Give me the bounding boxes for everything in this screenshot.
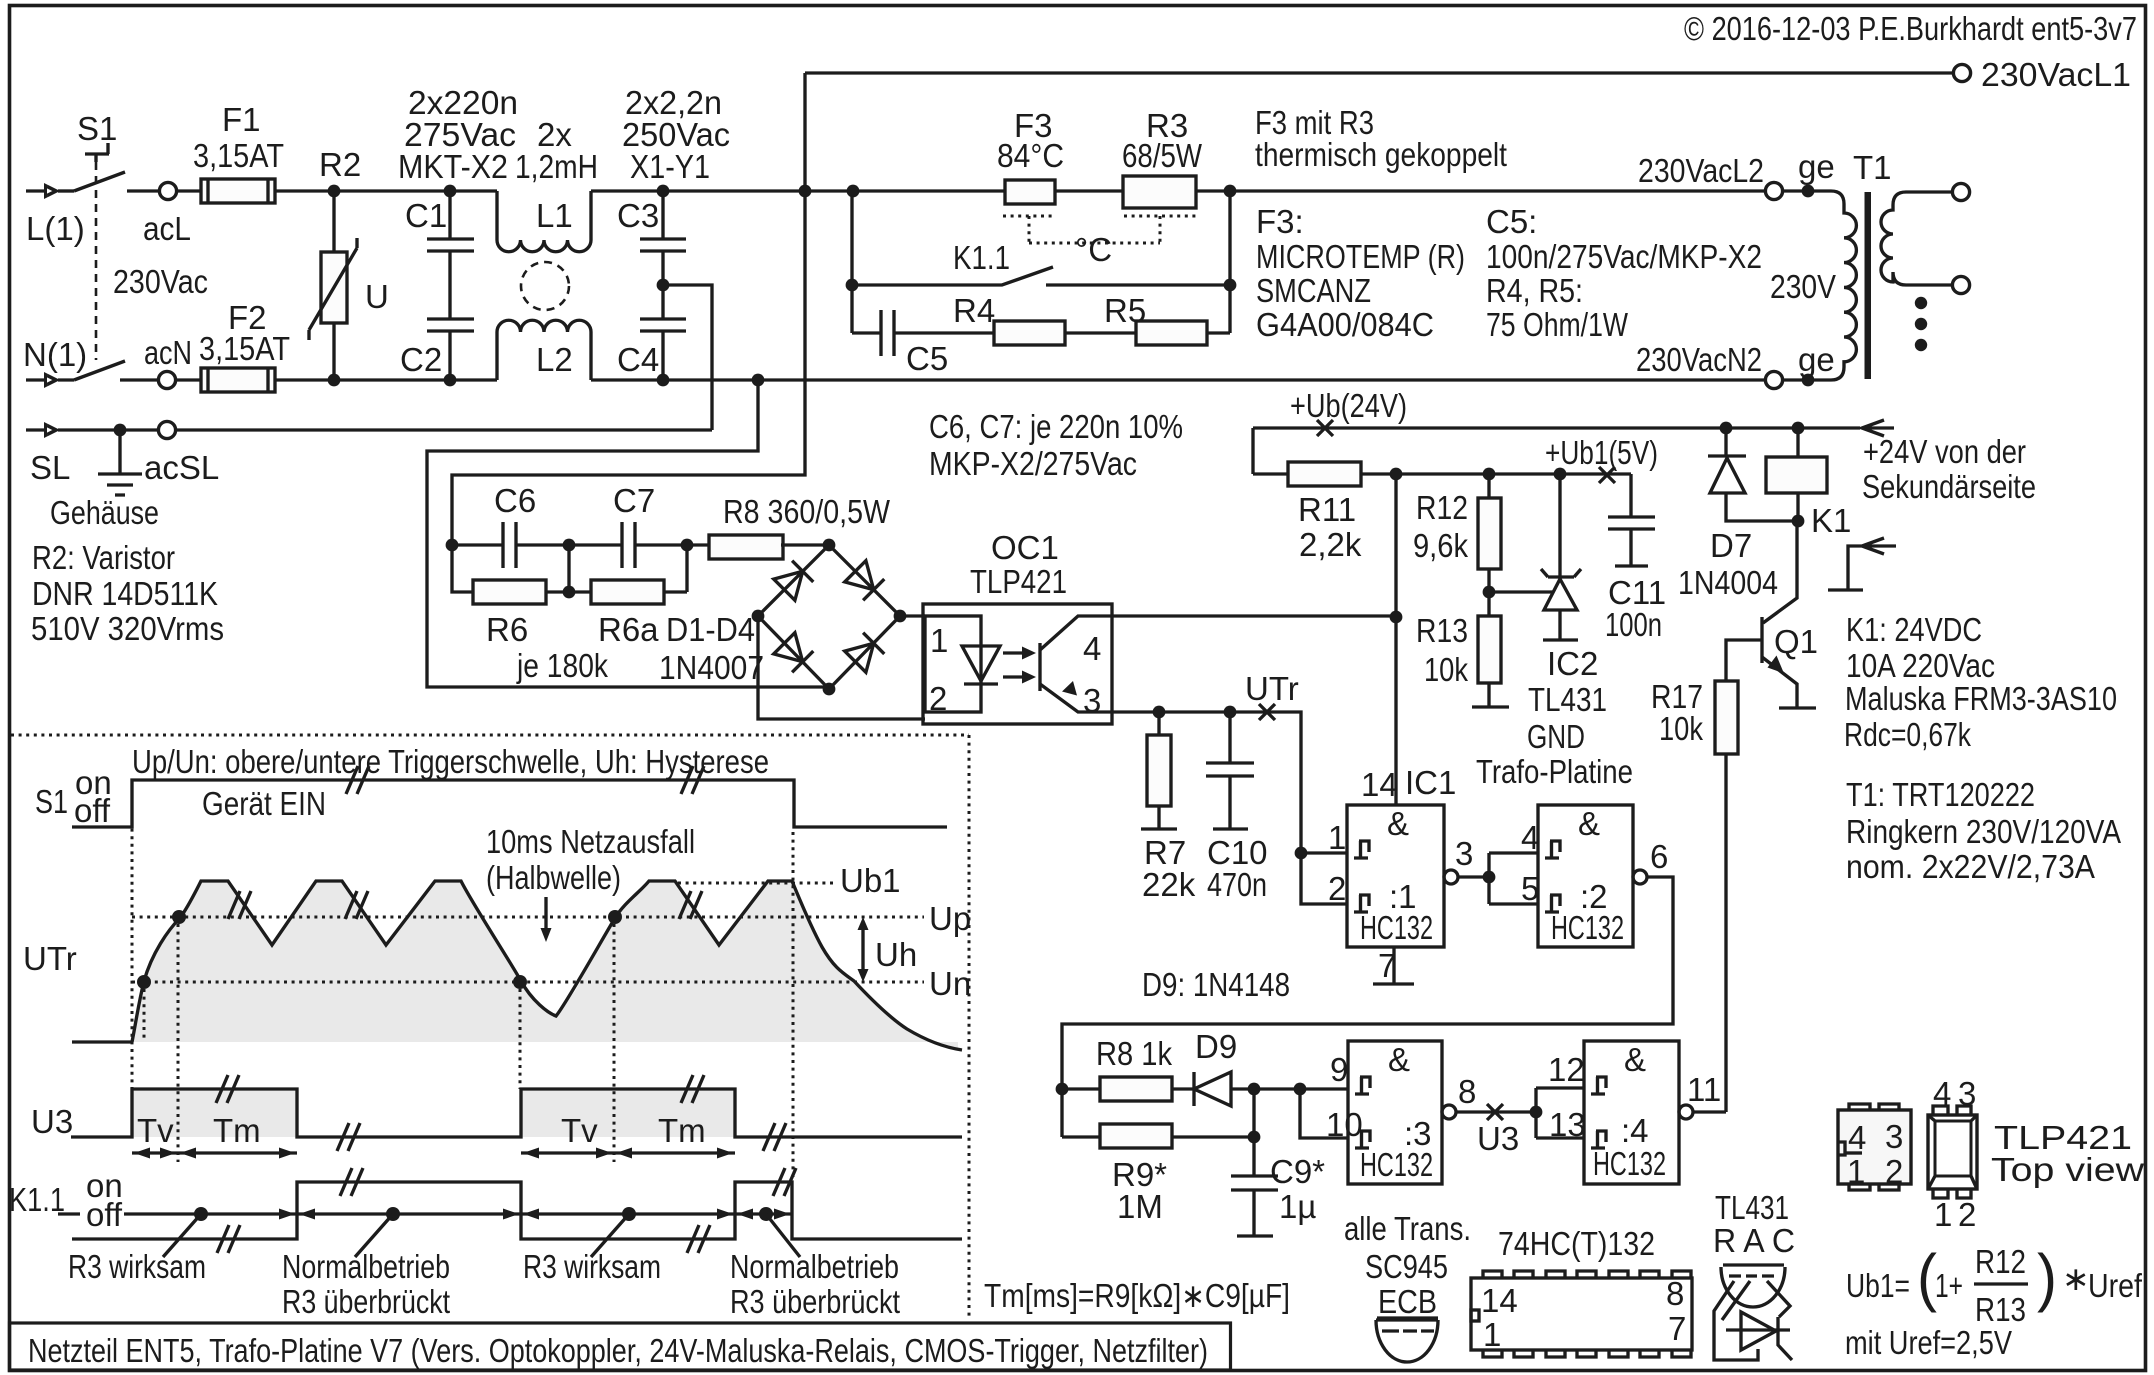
svg-text:&: & (1624, 1041, 1646, 1078)
node C7 right (681, 539, 694, 552)
svg-text:84°C: 84°C (997, 137, 1064, 174)
node R6/R6a mid (563, 586, 576, 599)
svg-text:T1: T1 (1853, 149, 1892, 186)
svg-text:R4, R5:: R4, R5: (1486, 272, 1583, 309)
svg-text:R2: Varistor: R2: Varistor (32, 539, 175, 576)
resistor R12 (1487, 474, 1490, 498)
svg-text:Uref: Uref (2088, 1267, 2143, 1304)
break S1 high 2 (681, 766, 704, 794)
svg-text:off: off (74, 792, 111, 829)
node K1 top (1792, 422, 1805, 435)
node L(1) input arrow (26, 189, 44, 192)
capacitor C11 (1608, 474, 1655, 566)
arrow to dip (544, 897, 547, 928)
wire SL (58, 428, 712, 431)
resistor R9* (1062, 1135, 1100, 1138)
svg-text:TLP421: TLP421 (970, 563, 1067, 600)
svg-text:acN: acN (144, 334, 192, 371)
node L-feed (799, 185, 812, 198)
svg-text:UTr: UTr (23, 940, 77, 977)
svg-text:K1.1: K1.1 (9, 1181, 65, 1218)
Uh arrow (861, 928, 864, 972)
wire pin6 feedback (1062, 877, 1673, 1137)
K1.1 breaks (217, 1225, 240, 1253)
IC DIP14 body (1471, 1278, 1692, 1350)
svg-text:thermisch gekoppelt: thermisch gekoppelt (1255, 136, 1507, 173)
pin 8 output (1442, 1105, 1456, 1119)
UTr breaks (228, 891, 251, 919)
transformer T1 primary (1831, 191, 1856, 380)
boundary dotted (11, 735, 969, 1318)
node F3 right (1224, 185, 1237, 198)
transistor SC945 package (1376, 1318, 1438, 1321)
svg-text:SMCANZ: SMCANZ (1256, 272, 1371, 309)
capacitor C1 (444, 185, 457, 198)
svg-text:R12: R12 (1416, 489, 1468, 526)
wire L2 to T1 (1783, 189, 1831, 192)
svg-text:Normalbetrieb: Normalbetrieb (282, 1248, 450, 1285)
U3 breaks (216, 1075, 239, 1103)
coupling circle (521, 262, 569, 310)
wire L bus through F3 block (805, 189, 1765, 192)
svg-text:TL431: TL431 (1528, 681, 1607, 718)
svg-text:K1: 24VDC: K1: 24VDC (1846, 611, 1982, 648)
Tv arrow 1 (132, 1151, 178, 1154)
node acN (158, 371, 175, 388)
svg-text:+Ub(24V): +Ub(24V) (1290, 387, 1407, 424)
svg-text:Q1: Q1 (1774, 623, 1818, 660)
svg-text:C2: C2 (400, 341, 442, 378)
DIP14 notch (1471, 1310, 1479, 1321)
svg-text:SC945: SC945 (1365, 1248, 1448, 1285)
switch S1 pole L (74, 143, 125, 191)
svg-text:mit Uref=2,5V: mit Uref=2,5V (1845, 1324, 2012, 1361)
capacitor C6 (452, 522, 569, 568)
break S1 high 1 (346, 766, 369, 794)
svg-text:U3: U3 (1477, 1120, 1519, 1157)
svg-text::4: :4 (1621, 1112, 1649, 1149)
svg-text:MICROTEMP (R): MICROTEMP (R) (1256, 238, 1465, 275)
wire to gate 2 inputs (1489, 853, 1538, 904)
svg-text:D1-D4: D1-D4 (666, 611, 755, 648)
svg-text:1µ: 1µ (1279, 1188, 1316, 1225)
svg-text:1: 1 (1483, 1316, 1501, 1353)
svg-text:C5:: C5: (1486, 203, 1537, 240)
svg-text:Normalbetrieb: Normalbetrieb (730, 1248, 899, 1285)
ground Gehaeuse (98, 430, 142, 495)
svg-text:1: 1 (1847, 1153, 1865, 1190)
dotted level Ub1 (678, 882, 836, 885)
svg-text:10A 220Vac: 10A 220Vac (1846, 647, 1995, 684)
svg-text:X1-Y1: X1-Y1 (630, 148, 710, 185)
svg-text:10: 10 (1326, 1106, 1363, 1143)
svg-text:Trafo-Platine: Trafo-Platine (1476, 753, 1633, 790)
svg-text:Rdc=0,67k: Rdc=0,67k (1844, 716, 1971, 753)
secondary terminal top (1952, 183, 1969, 200)
svg-text:10k: 10k (1424, 651, 1468, 688)
resistor R17 (1715, 681, 1738, 754)
svg-text:Tm: Tm (658, 1112, 706, 1149)
svg-text:7: 7 (1668, 1310, 1686, 1347)
svg-text:9,6k: 9,6k (1413, 527, 1468, 564)
wire bridge+ to OC1 pin1 (900, 614, 925, 617)
svg-text:R13: R13 (1975, 1291, 2026, 1328)
svg-text:Ub1=: Ub1= (1846, 1267, 1910, 1304)
resistor R11 (1253, 472, 1288, 475)
resistor R6 (452, 545, 473, 592)
svg-text:ge: ge (1798, 148, 1835, 185)
DIP14 pins top (1483, 1271, 1691, 1278)
wire to 230VacL1 (805, 73, 1953, 191)
svg-text:4: 4 (1848, 1119, 1866, 1156)
svg-text:12: 12 (1548, 1051, 1585, 1088)
svg-text:Netzteil ENT5, Trafo-Platine V: Netzteil ENT5, Trafo-Platine V7 (Vers. O… (28, 1332, 1208, 1369)
diode D3 bottom-left arm (774, 633, 814, 673)
svg-text:U3: U3 (31, 1103, 73, 1140)
node 230VacN2 terminal (1765, 371, 1782, 388)
svg-text:8: 8 (1666, 1275, 1684, 1312)
svg-text:U: U (365, 278, 389, 315)
wire OC1 pin3 / UTr (1112, 712, 1301, 853)
resistor R8 1k (1062, 1087, 1100, 1090)
svg-text:N(1): N(1) (23, 336, 87, 373)
svg-text:je 180k: je 180k (516, 647, 608, 684)
callout lines (163, 1214, 800, 1257)
svg-text:F1: F1 (222, 101, 261, 138)
svg-text:1M: 1M (1117, 1188, 1163, 1225)
Tv arrow 2 (521, 1151, 614, 1154)
dotted level Un (132, 981, 924, 984)
Tm arrow 1 (178, 1151, 297, 1154)
TL431 inner leads (1714, 1281, 1758, 1360)
node UTr x-mark (1259, 704, 1275, 720)
svg-text:74HC(T)132: 74HC(T)132 (1498, 1225, 1655, 1262)
node K1.1 left (846, 279, 859, 292)
svg-text:1+: 1+ (1935, 1267, 1963, 1304)
svg-text:∗: ∗ (2062, 1260, 2090, 1297)
dotted level Up (132, 916, 924, 919)
node U3 x-mark (1487, 1104, 1503, 1120)
pin 7 ground (1373, 947, 1414, 984)
diode D1 top-left arm (774, 561, 814, 601)
svg-text:off: off (86, 1196, 123, 1233)
svg-text:230Vac: 230Vac (113, 263, 208, 300)
svg-text:D9: 1N4148: D9: 1N4148 (1142, 966, 1290, 1003)
node R11 out (1390, 468, 1403, 481)
svg-text:L(1): L(1) (26, 210, 85, 247)
diode D9 (1194, 1072, 1348, 1106)
svg-text:2: 2 (1885, 1153, 1903, 1190)
svg-text:S1: S1 (35, 783, 68, 820)
svg-text:Up: Up (929, 900, 971, 937)
svg-text:230VacN2: 230VacN2 (1636, 341, 1762, 378)
wire N feed down to bridge bottom (752, 374, 765, 387)
svg-text:acSL: acSL (144, 449, 219, 486)
wire (1207, 331, 1230, 334)
svg-text:6: 6 (1650, 838, 1668, 875)
transistor Q1 (1763, 521, 1797, 623)
wire (127, 189, 159, 192)
Tm arrow 2 (614, 1151, 735, 1154)
varistor R2 (332, 191, 335, 252)
wire N2 to T1 (1783, 378, 1831, 381)
svg-text:°C: °C (1075, 231, 1112, 268)
svg-text:C5: C5 (906, 340, 948, 377)
node R2 top (328, 185, 341, 198)
svg-text:(: ( (1917, 1241, 1937, 1313)
resistor R5 (1136, 321, 1207, 345)
fuse F2 (201, 368, 275, 392)
ground R7 (1141, 827, 1177, 830)
svg-text:Ringkern 230V/120VA: Ringkern 230V/120VA (1846, 813, 2121, 850)
wire L to switch (58, 189, 74, 192)
node TL431 top (1554, 468, 1567, 481)
svg-text:68/5W: 68/5W (1122, 137, 1203, 174)
svg-text:F3:: F3: (1256, 203, 1304, 240)
svg-text:13: 13 (1549, 1106, 1586, 1143)
svg-text:C6, C7: je 220n 10%: C6, C7: je 220n 10% (929, 408, 1183, 445)
svg-text:4: 4 (1083, 630, 1101, 667)
pin 10 wire (1300, 1089, 1348, 1138)
node K1.1 right (1224, 279, 1237, 292)
svg-text:R13: R13 (1416, 612, 1468, 649)
svg-text:Tm: Tm (213, 1112, 261, 1149)
diode D7 (1708, 428, 1797, 521)
svg-text:L2: L2 (536, 341, 573, 378)
svg-text:R3 wirksam: R3 wirksam (523, 1248, 661, 1285)
fuse F3 (1005, 180, 1055, 204)
node +Ub1(5V) x-mark (1599, 467, 1615, 483)
LED OC1 (962, 646, 1000, 684)
svg-text:C4: C4 (617, 341, 659, 378)
pin 1 wire (1295, 847, 1308, 860)
S1 waveform (72, 780, 947, 827)
phototransistor OC1 (1038, 643, 1041, 691)
wire (275, 189, 805, 192)
svg-text:230VacL2: 230VacL2 (1638, 152, 1764, 189)
svg-text:C6: C6 (494, 482, 536, 519)
node F3 left (847, 185, 860, 198)
svg-text:K1.1: K1.1 (953, 239, 1010, 276)
wire K1.1 branch (852, 191, 1230, 333)
svg-text:© 2016-12-03 P.E.Burkhardt ent: © 2016-12-03 P.E.Burkhardt ent5-3v7 (1684, 10, 2137, 47)
inductor L2 (497, 332, 591, 380)
svg-text:L1: L1 (536, 197, 573, 234)
pin 11 output (1679, 1105, 1693, 1119)
svg-text:R4: R4 (953, 292, 995, 329)
resistor R3 (1123, 176, 1196, 208)
node C6 left (446, 539, 459, 552)
svg-text:Tm[ms]=R9[kΩ]∗C9[µF]: Tm[ms]=R9[kΩ]∗C9[µF] (984, 1277, 1290, 1314)
resistor R13 (1478, 616, 1501, 683)
contact flag K1 (1828, 538, 1896, 590)
wire (176, 378, 201, 381)
transformer T1 secondary (1881, 192, 1952, 285)
node SL input arrow (26, 428, 44, 431)
node D7 top (1720, 422, 1733, 435)
ground C10 (1213, 827, 1248, 830)
svg-text:Tv: Tv (137, 1112, 174, 1149)
pin 3 output (1444, 870, 1458, 884)
svg-text:C3: C3 (617, 197, 659, 234)
svg-text:3: 3 (1885, 1118, 1903, 1155)
light arrows (1003, 653, 1022, 677)
svg-text:C7: C7 (613, 482, 655, 519)
svg-text:&: & (1578, 805, 1600, 842)
resistor R4 (994, 321, 1065, 345)
svg-text:Sekundärseite: Sekundärseite (1862, 468, 2036, 505)
svg-text:Maluska FRM3-3AS10: Maluska FRM3-3AS10 (1845, 680, 2117, 717)
svg-text:1,2mH: 1,2mH (515, 148, 598, 185)
resistor R7 (1157, 712, 1160, 735)
svg-text:R3 wirksam: R3 wirksam (68, 1248, 206, 1285)
capacitor C2 (427, 319, 474, 380)
svg-text:2: 2 (929, 680, 947, 717)
svg-text:UTr: UTr (1245, 670, 1299, 707)
svg-text:3,15AT: 3,15AT (199, 330, 290, 367)
svg-text:R6a: R6a (598, 611, 659, 648)
thermal coupling dotted (1003, 216, 1196, 243)
transformer T1 core (1865, 192, 1872, 379)
wire IC1 supply (1394, 474, 1397, 805)
TL431 zener (1741, 1312, 1776, 1350)
svg-text:G4A00/084C: G4A00/084C (1256, 306, 1434, 343)
svg-text:R5: R5 (1104, 292, 1146, 329)
bridge rectifier D1-D4 frame (758, 545, 900, 689)
node C3/C4 mid to SL (657, 279, 670, 292)
UTr gray fill (132, 881, 958, 1048)
svg-text:Tv: Tv (561, 1112, 598, 1149)
U3 waveform (71, 1089, 962, 1137)
svg-text:1: 1 (930, 622, 948, 659)
svg-text:1: 1 (1934, 1196, 1952, 1233)
S1 link dashed (95, 162, 98, 360)
svg-text:MKP-X2/275Vac: MKP-X2/275Vac (929, 445, 1137, 482)
capacitor C4 (640, 285, 686, 380)
node C6/C7 mid (563, 539, 576, 552)
svg-text:): ) (2037, 1241, 2057, 1313)
svg-text:2,2k: 2,2k (1299, 526, 1362, 563)
svg-text:11: 11 (1687, 1071, 1721, 1108)
svg-text:R6: R6 (486, 611, 528, 648)
svg-text:alle Trans.: alle Trans. (1344, 1210, 1471, 1247)
TL431 package (1723, 1263, 1784, 1266)
wire OC1 pin4 to IC1 pin14 rail (1112, 614, 1396, 617)
svg-text:R8 360/0,5W: R8 360/0,5W (723, 493, 891, 530)
svg-text:SL: SL (30, 449, 70, 486)
node 230VacL1 terminal (1953, 64, 1970, 81)
svg-text:3,15AT: 3,15AT (193, 137, 284, 174)
svg-text:OC1: OC1 (991, 529, 1059, 566)
svg-text:IC1: IC1 (1405, 764, 1456, 801)
svg-text:3: 3 (1083, 682, 1101, 719)
svg-text:1N4004: 1N4004 (1678, 564, 1778, 601)
svg-text:Gehäuse: Gehäuse (50, 494, 159, 531)
svg-text:HC132: HC132 (1593, 1145, 1666, 1182)
svg-text:230VacL1: 230VacL1 (1981, 56, 2131, 93)
svg-text:7: 7 (1378, 947, 1396, 984)
node acSL (114, 424, 127, 437)
wire N bus (275, 378, 1765, 381)
svg-text:10ms Netzausfall: 10ms Netzausfall (486, 823, 695, 860)
contact K1.1 (852, 267, 1230, 285)
svg-text:100n: 100n (1605, 606, 1662, 643)
pin 6 output (1633, 870, 1647, 884)
svg-text:TL431: TL431 (1715, 1189, 1789, 1226)
gate IC1:1 (1347, 805, 1444, 947)
svg-text:8: 8 (1458, 1073, 1476, 1110)
node R12 top (1483, 468, 1496, 481)
svg-text:3: 3 (1455, 835, 1473, 872)
more windings dots (1915, 297, 1927, 309)
svg-text:22k: 22k (1142, 866, 1196, 903)
svg-text:1N4007: 1N4007 (659, 649, 764, 686)
wire (177, 189, 201, 192)
resistor R8 (687, 543, 709, 546)
svg-text:GND: GND (1527, 718, 1585, 755)
svg-text:HC132: HC132 (1551, 909, 1624, 946)
svg-text:&: & (1388, 1041, 1410, 1078)
capacitor C7 (569, 522, 687, 568)
wire to gate 4 inputs (1536, 1088, 1584, 1138)
svg-text:Up/Un: obere/untere Triggersch: Up/Un: obere/untere Triggerschwelle, Uh:… (132, 743, 769, 780)
svg-text:ECB: ECB (1378, 1283, 1437, 1320)
svg-text:14: 14 (1361, 766, 1398, 803)
diode D4 bottom-right arm (845, 633, 885, 673)
svg-text:Un: Un (929, 965, 971, 1002)
capacitor C5 (852, 310, 994, 356)
node 230VacL2 terminal (1765, 182, 1782, 199)
wire TL431 ref (1489, 590, 1553, 593)
svg-text:DNR 14D511K: DNR 14D511K (32, 575, 218, 612)
svg-text:2: 2 (1958, 1196, 1976, 1233)
gate IC1:2 (1538, 805, 1633, 947)
svg-text:C1: C1 (405, 197, 447, 234)
svg-text:(Halbwelle): (Halbwelle) (486, 859, 621, 896)
svg-text:D7: D7 (1710, 527, 1752, 564)
svg-text:R3 überbrückt: R3 überbrückt (730, 1283, 900, 1320)
svg-text:HC132: HC132 (1360, 909, 1433, 946)
svg-text:R8 1k: R8 1k (1096, 1035, 1172, 1072)
svg-text:HC132: HC132 (1360, 1146, 1433, 1183)
svg-text:R11: R11 (1298, 491, 1356, 528)
svg-text:+24V von der: +24V von der (1863, 433, 2026, 470)
UTr waveform (72, 881, 962, 1050)
svg-text:R12: R12 (1975, 1243, 2026, 1280)
svg-text:D9: D9 (1195, 1028, 1237, 1065)
svg-text:R A C: R A C (1713, 1222, 1795, 1259)
TLP421 SMD top view (1838, 1110, 1911, 1184)
DIP14 pins bottom (1483, 1350, 1691, 1357)
node +Ub(24V) rail (1253, 428, 1860, 474)
dotted verticals (131, 783, 134, 1089)
node N(1) input arrow (26, 378, 44, 381)
relay coil K1 (1796, 428, 1799, 457)
+24V arrow (1862, 420, 1894, 436)
svg-text:MKT-X2: MKT-X2 (398, 148, 508, 185)
node dots on UTr (137, 975, 151, 989)
diode D2 top-right arm (845, 561, 885, 601)
svg-text:2: 2 (1328, 870, 1346, 907)
wire bridge- to OC1 pin2 (758, 616, 925, 719)
op-amp OC1 optocoupler box (923, 604, 1112, 724)
svg-text:Ub1: Ub1 (840, 862, 901, 899)
svg-text:acL: acL (143, 210, 191, 247)
capacitor C10 (1206, 712, 1254, 829)
secondary terminal bottom (1952, 276, 1969, 293)
svg-text:100n/275Vac/MKP-X2: 100n/275Vac/MKP-X2 (1486, 238, 1762, 275)
svg-text:IC2: IC2 (1547, 645, 1598, 682)
